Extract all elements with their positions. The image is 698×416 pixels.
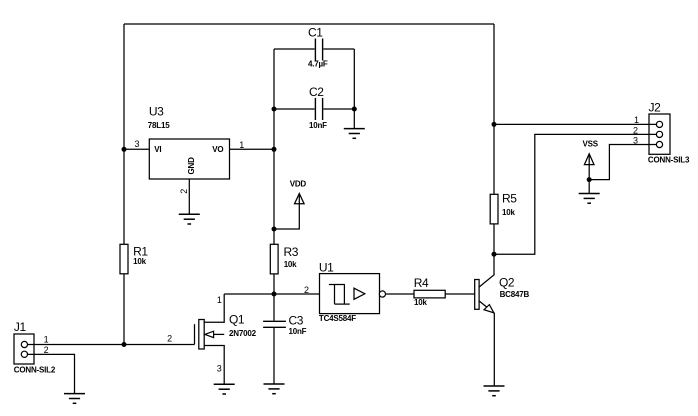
node junction right rail / J2 pin1: [492, 122, 497, 127]
connector J2 CONN-SIL3: [648, 101, 690, 165]
svg-text:VDD: VDD: [290, 180, 307, 189]
svg-text:3: 3: [135, 139, 140, 149]
transistor Q2 BC847B: [475, 254, 530, 386]
wire C1 row left: [274, 48, 315, 50]
transistor Q1 2N7002: [195, 294, 257, 384]
wire U3 GND pin: [188, 179, 190, 214]
svg-text:CONN-SIL2: CONN-SIL2: [14, 365, 56, 374]
wire VDD stub: [274, 194, 299, 230]
wire mid rail: [273, 49, 275, 244]
connector J1 CONN-SIL2: [14, 320, 56, 374]
svg-text:2: 2: [44, 345, 49, 355]
node junction left rail / U3 VI: [122, 147, 127, 152]
svg-text:2N7002: 2N7002: [229, 329, 257, 338]
ground under Q2: [484, 386, 505, 396]
ground under Q1: [214, 384, 235, 394]
ground under VSS: [579, 194, 600, 204]
node junction R5 / Q2 / J2 pin2: [492, 252, 497, 257]
wire C3 top stub: [273, 294, 275, 321]
svg-text:TC4S584F: TC4S584F: [319, 314, 356, 323]
wire R3 bottom to bus: [273, 274, 275, 294]
svg-text:R5: R5: [502, 192, 517, 206]
ground under U3: [179, 214, 200, 224]
svg-text:U3: U3: [149, 105, 164, 119]
ground under C2 rail: [344, 129, 365, 139]
node junction VSS: [587, 177, 592, 182]
wire J1 pin2 to ground: [28, 354, 75, 393]
svg-text:CONN-SIL3: CONN-SIL3: [648, 155, 690, 164]
svg-text:GND: GND: [187, 157, 196, 175]
power VSS symbol: [583, 139, 599, 179]
wire U3 VI stub: [124, 148, 149, 150]
svg-text:2: 2: [633, 125, 638, 135]
svg-text:2: 2: [167, 334, 172, 344]
svg-text:10k: 10k: [284, 260, 297, 269]
svg-text:C1: C1: [308, 26, 323, 40]
wire left rail upper: [123, 24, 125, 244]
node junction mid rail / C2: [272, 107, 277, 112]
ground under J1 pin2: [64, 394, 85, 404]
wire C3 bottom stub: [273, 328, 275, 384]
svg-text:1: 1: [217, 295, 222, 305]
resistor R1: [120, 244, 148, 273]
svg-text:J1: J1: [14, 320, 27, 334]
svg-text:78L15: 78L15: [148, 121, 170, 130]
wire R4 to Q2 base: [445, 293, 474, 295]
wire VSS to ground: [588, 180, 590, 194]
resistor R5: [490, 192, 517, 224]
svg-text:U1: U1: [319, 260, 334, 274]
svg-text:R3: R3: [284, 245, 299, 259]
svg-text:3: 3: [217, 364, 222, 374]
svg-text:VSS: VSS: [583, 139, 599, 148]
svg-text:4.7µF: 4.7µF: [308, 59, 328, 68]
svg-text:10k: 10k: [133, 257, 146, 266]
wire left rail to Q1 gate: [124, 344, 195, 346]
wire cap right rail: [353, 49, 355, 129]
wire U1 output to R4: [386, 293, 415, 295]
node junction left rail / J1 wire: [122, 342, 127, 347]
svg-text:VO: VO: [212, 145, 223, 154]
capacitor C3: [263, 314, 307, 337]
power VDD symbol: [290, 180, 307, 204]
capacitor C1: [308, 26, 328, 69]
wire right rail: [493, 24, 495, 194]
wire J1 pin1 to left rail: [28, 344, 125, 346]
resistor R3: [270, 244, 298, 274]
regulator U3 78L15: [148, 105, 230, 180]
svg-text:R4: R4: [414, 276, 429, 290]
svg-text:J2: J2: [649, 101, 662, 115]
capacitor C2: [309, 85, 327, 130]
svg-text:C2: C2: [309, 85, 324, 99]
svg-text:2: 2: [304, 285, 309, 295]
svg-text:C3: C3: [289, 314, 304, 328]
node junction mid rail / U3 VO: [272, 147, 277, 152]
svg-text:10k: 10k: [414, 298, 427, 307]
wire J2 pin1: [494, 123, 656, 125]
wire C2 row left: [274, 108, 315, 110]
svg-text:2: 2: [179, 189, 189, 194]
svg-text:Q1: Q1: [229, 313, 245, 327]
svg-text:1: 1: [634, 115, 639, 125]
wire R5 bottom: [493, 224, 495, 254]
svg-text:Q2: Q2: [499, 276, 515, 290]
svg-text:VI: VI: [154, 145, 161, 154]
wire J2 pin3: [589, 145, 656, 180]
node junction bus / R3 / C3: [272, 292, 277, 297]
inverter U1 TC4S584F: [319, 260, 386, 323]
svg-text:10k: 10k: [502, 208, 515, 217]
svg-text:3: 3: [633, 135, 638, 145]
wire C1 row right: [323, 48, 354, 50]
resistor R4: [414, 276, 446, 307]
node junction C2 right: [352, 107, 357, 112]
svg-text:10nF: 10nF: [289, 327, 307, 336]
wire J2 pin2: [494, 134, 656, 254]
svg-text:1: 1: [239, 140, 244, 150]
wire C2 row right: [323, 108, 354, 110]
wire U3 VO stub: [230, 148, 275, 150]
ground under C3: [264, 384, 285, 394]
wire main bus row: [224, 293, 319, 295]
svg-text:BC847B: BC847B: [500, 290, 530, 299]
svg-text:10nF: 10nF: [309, 121, 327, 130]
svg-text:1: 1: [44, 335, 49, 345]
wire left rail lower: [123, 274, 125, 345]
node junction mid rail / VDD stub: [272, 227, 277, 232]
wire top rail: [124, 23, 494, 25]
